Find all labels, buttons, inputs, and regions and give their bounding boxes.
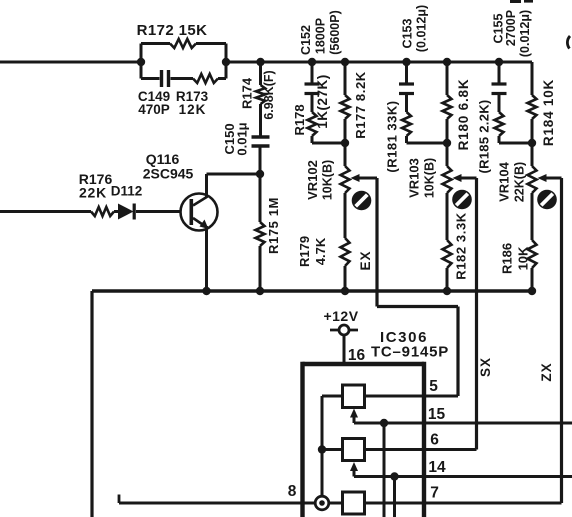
resistor R173 <box>171 77 194 80</box>
artifact - cropped text marks top edge <box>510 0 521 3</box>
wire - pin 5 line <box>365 395 459 398</box>
resistor R178 1K(27K) <box>308 112 317 136</box>
wire - VR102 wiper (EX) <box>351 174 360 182</box>
node - R180 top <box>443 58 451 66</box>
variable resistor VR102 10K(B) <box>344 143 347 166</box>
svg-text:SX: SX <box>478 357 493 377</box>
svg-text:16: 16 <box>348 347 366 364</box>
wire - left vertical down <box>90 291 93 517</box>
svg-text:VR102: VR102 <box>305 160 320 200</box>
svg-text:R177 8.2K: R177 8.2K <box>353 71 368 139</box>
svg-text:C153: C153 <box>401 19 415 49</box>
resistor R180 6.8K <box>446 62 449 95</box>
svg-text:+12V: +12V <box>323 308 358 324</box>
wire - FF1 clock arrow <box>350 409 358 418</box>
variable resistor VR104 22K(B) <box>531 143 534 166</box>
wire - Q116 collector to node <box>205 174 208 197</box>
trimmer symbol VR103 <box>452 190 472 210</box>
svg-text:10K: 10K <box>516 246 531 270</box>
wire - pin 6 line <box>365 448 477 451</box>
resistor R182 3.3K <box>446 193 449 240</box>
node - FF2 bus junction <box>318 445 326 453</box>
node - C155 top <box>495 58 503 66</box>
ic cell FF2 <box>343 439 365 461</box>
node - R174 top <box>256 58 264 66</box>
svg-text:10K(B): 10K(B) <box>321 160 335 200</box>
wire - base input net <box>0 210 91 213</box>
svg-text:D112: D112 <box>111 184 143 199</box>
variable resistor VR103 10K(B) <box>446 143 449 166</box>
node - C153 top <box>402 58 410 66</box>
wire - FF1 left to bus <box>322 395 343 398</box>
svg-text:6: 6 <box>430 432 439 449</box>
resistor R174 6.98K(F) <box>259 62 262 85</box>
svg-text:10K(B): 10K(B) <box>423 158 437 198</box>
wire - pin 7 line <box>365 502 562 505</box>
node - pin15 junction <box>380 419 388 427</box>
svg-text:22K(B): 22K(B) <box>513 162 527 202</box>
node - left of parallel block <box>137 58 145 66</box>
svg-text:R178: R178 <box>292 104 307 135</box>
capacitor C155 2700P (0.012u) <box>498 62 501 84</box>
svg-text:5: 5 <box>429 378 438 395</box>
node - C152 top <box>308 58 316 66</box>
wire - pin 16 to IC306 <box>343 335 346 364</box>
svg-text:R174: R174 <box>240 77 255 109</box>
transistor Q116 2SC945 <box>181 194 218 231</box>
svg-text:1K(27K): 1K(27K) <box>315 74 330 129</box>
svg-text:R182 3.3K: R182 3.3K <box>454 212 469 280</box>
svg-text:VR104: VR104 <box>497 161 512 202</box>
wire - pin14 branch down <box>393 477 396 517</box>
svg-text:EX: EX <box>358 250 373 270</box>
resistor R175 1M <box>259 174 262 222</box>
wire - top horizontal net <box>0 61 141 64</box>
svg-text:ZX: ZX <box>539 362 554 381</box>
svg-text:(0.012μ): (0.012μ) <box>415 5 429 52</box>
svg-text:VR103: VR103 <box>407 158 422 198</box>
resistor R184 10K <box>531 62 534 95</box>
node - pin14 junction <box>390 472 398 480</box>
svg-text:(0.012μ): (0.012μ) <box>518 10 532 57</box>
svg-text:15: 15 <box>428 406 446 423</box>
svg-text:6.98K(F): 6.98K(F) <box>262 70 276 119</box>
svg-text:(5600P): (5600P) <box>328 10 342 54</box>
power +12V terminal <box>330 329 358 332</box>
svg-text:R184 10K: R184 10K <box>541 79 556 146</box>
wire - pin 8 line <box>119 502 343 505</box>
terminal - circled junction on pin8 line <box>315 496 329 510</box>
svg-text:14: 14 <box>428 459 446 476</box>
node - stage1 bottom junction <box>341 139 349 147</box>
svg-text:(R185 2.2K): (R185 2.2K) <box>477 99 492 173</box>
ic IC306 box outline <box>303 362 425 366</box>
svg-text:R172 15K: R172 15K <box>137 22 208 39</box>
wire - stage1 bottom <box>312 142 345 145</box>
svg-text:TC–9145P: TC–9145P <box>371 344 449 361</box>
node - stage3 bottom junction <box>528 139 536 147</box>
ic cell FF1 <box>343 385 365 408</box>
svg-text:R180 6.8K: R180 6.8K <box>456 79 471 151</box>
resistor R186 10K <box>531 193 534 240</box>
wire - Q116 emitter down <box>205 226 208 291</box>
node - R182 on mid net <box>443 287 451 295</box>
resistor R179 4.7K <box>344 193 347 238</box>
svg-text:12K: 12K <box>179 102 207 117</box>
node - Q116 collector junction <box>256 170 264 178</box>
wire - stage3 bottom <box>499 142 532 145</box>
svg-text:0.01μ: 0.01μ <box>235 122 250 155</box>
node - right of parallel block <box>222 58 230 66</box>
trimmer symbol VR104 <box>537 190 557 210</box>
wire - pin 15 line <box>354 422 572 425</box>
svg-text:8: 8 <box>288 483 297 500</box>
wire - VR104 wiper (ZX) <box>538 174 547 182</box>
resistor R172 <box>141 42 170 45</box>
wire - pin15 branch down <box>383 423 386 517</box>
svg-text:7: 7 <box>430 485 439 502</box>
capacitor C152 1800P (5600P) <box>311 62 314 84</box>
wire - parallel block right vertical <box>225 44 228 79</box>
svg-text:470P: 470P <box>138 102 170 117</box>
wire - parallel block left vertical <box>140 44 143 79</box>
wire - FF2 left to bus <box>322 448 343 451</box>
node - stage2 bottom junction <box>443 139 451 147</box>
diode D112 <box>118 204 134 220</box>
resistor R176 22K <box>91 207 114 216</box>
svg-text:1800P: 1800P <box>314 18 328 54</box>
wire - middle horizontal net <box>92 289 533 293</box>
svg-text:4.7K: 4.7K <box>313 237 328 265</box>
node - emitter on mid net <box>202 287 210 295</box>
resistor R177 8.2K <box>344 62 347 95</box>
svg-text:22K: 22K <box>79 185 107 201</box>
svg-text:2700P: 2700P <box>504 10 518 46</box>
resistor R185 2.2K <box>495 112 504 136</box>
node - R186 on mid net <box>528 287 536 295</box>
svg-text:(R181 33K): (R181 33K) <box>385 100 400 172</box>
trimmer symbol VR102 <box>352 191 372 211</box>
artifact - cropped paren right edge <box>567 36 570 49</box>
node - R177 top <box>341 58 349 66</box>
svg-text:C152: C152 <box>299 25 313 55</box>
wire - stage2 bottom <box>407 142 448 145</box>
wire - pin 14 line <box>354 475 572 478</box>
svg-text:2SC945: 2SC945 <box>143 166 194 182</box>
svg-text:R179: R179 <box>297 236 312 267</box>
node - R179 on mid net <box>341 287 349 295</box>
wire - VR103 wiper (SX) <box>453 174 462 182</box>
svg-text:R186: R186 <box>500 243 515 274</box>
capacitor C153 (0.012u) <box>405 62 408 84</box>
node - R175 on mid net <box>256 287 264 295</box>
wire - FF2 clock arrow <box>350 462 358 471</box>
resistor R181 33K <box>402 112 411 136</box>
ic cell FF3 <box>343 492 365 514</box>
capacitor C149 <box>141 77 160 80</box>
capacitor C150 0.01u <box>259 104 262 137</box>
svg-text:R175 1M: R175 1M <box>266 197 281 254</box>
